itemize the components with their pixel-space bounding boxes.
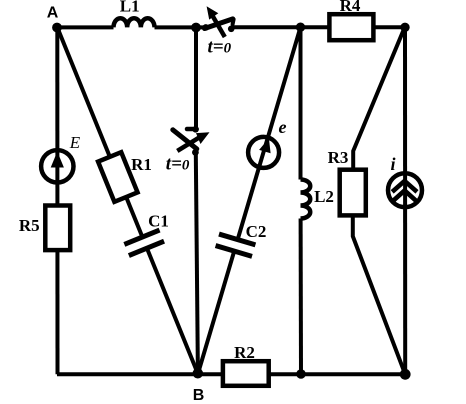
resistor R4 box (329, 14, 373, 40)
switch S2 arrow shaft (177, 137, 200, 151)
wire R3 branch: top diagonal from top-right corner (353, 27, 405, 170)
wire middle vertical upper (J1 to switch S2) (194, 27, 198, 128)
source i circle (388, 173, 422, 207)
node A dot (52, 23, 62, 33)
resistor R1 (rotated box) (98, 152, 137, 202)
node J1 dot (switch junction) (191, 23, 201, 33)
switch S2 blade (173, 130, 197, 149)
source E arrow (51, 152, 64, 168)
svg-text:e: e (279, 117, 287, 137)
svg-text:E: E (69, 133, 81, 152)
inductor L2 coil (301, 180, 311, 219)
source i chevron upper (392, 181, 417, 192)
wire diagonal A to B (through R1 C1) (57, 27, 198, 373)
wire top rail L1 to switch S1 (155, 25, 208, 29)
svg-text:R3: R3 (328, 148, 349, 167)
wire right rail (403, 27, 407, 374)
wire diagonal J2 to B (through e C2) (198, 27, 301, 374)
wire L2 branch lower (299, 219, 303, 375)
switch S1 right contact dot (228, 26, 235, 33)
switch S1 blade (205, 19, 233, 29)
svg-text:L2: L2 (314, 187, 334, 206)
svg-text:C2: C2 (246, 222, 267, 241)
svg-text:A: A (47, 5, 59, 22)
switch S1 arrowhead (207, 6, 219, 19)
source e circle (248, 137, 279, 168)
switch S1 left contact dot (203, 24, 210, 31)
inductor L1 coil (114, 18, 155, 27)
switch S2 arrowhead (196, 132, 210, 144)
wire top rail A to L1 (57, 25, 114, 29)
capacitor C1 (122, 229, 165, 256)
node top-right corner dot (400, 23, 409, 32)
source i chevron lower (393, 191, 416, 202)
source E circle (41, 150, 73, 182)
resistor R5 box (45, 206, 70, 251)
svg-text:C1: C1 (148, 212, 169, 231)
svg-text:R2: R2 (234, 343, 255, 362)
resistor R3 box (340, 170, 366, 216)
capacitor C2 (214, 233, 258, 256)
node bottom junction dot (L2) (296, 369, 306, 379)
wire L2 branch upper (299, 27, 303, 179)
svg-text:t=0: t=0 (208, 37, 232, 58)
svg-text:R5: R5 (19, 216, 40, 235)
svg-text:R1: R1 (131, 155, 152, 174)
svg-text:B: B (193, 387, 205, 404)
svg-text:i: i (390, 154, 395, 174)
svg-text:L1: L1 (120, 0, 140, 16)
switch S2 bottom contact dot (192, 149, 199, 156)
source e arrowhead (259, 138, 271, 153)
svg-text:t=0: t=0 (166, 154, 190, 175)
wire R3 branch: bottom diagonal to bottom-right corner (353, 215, 405, 374)
node bottom-right corner dot (400, 369, 411, 380)
wire middle vertical lower (switch S2 to B) (196, 153, 198, 375)
wire top rail R4 to top-right corner (373, 25, 405, 29)
node B dot (193, 368, 203, 378)
switch S1 arrow shaft (212, 14, 225, 37)
wire bottom rail (57, 372, 405, 376)
switch S2 top contact stub (187, 127, 197, 132)
resistor R2 box (223, 361, 269, 386)
wire left rail A down to bottom-left corner (55, 27, 59, 374)
svg-text:R4: R4 (340, 0, 361, 15)
switch S2 top contact dot (192, 126, 199, 133)
node J2 dot (top middle junction) (296, 23, 305, 32)
wire top rail switch S1 to R4 (233, 25, 331, 29)
